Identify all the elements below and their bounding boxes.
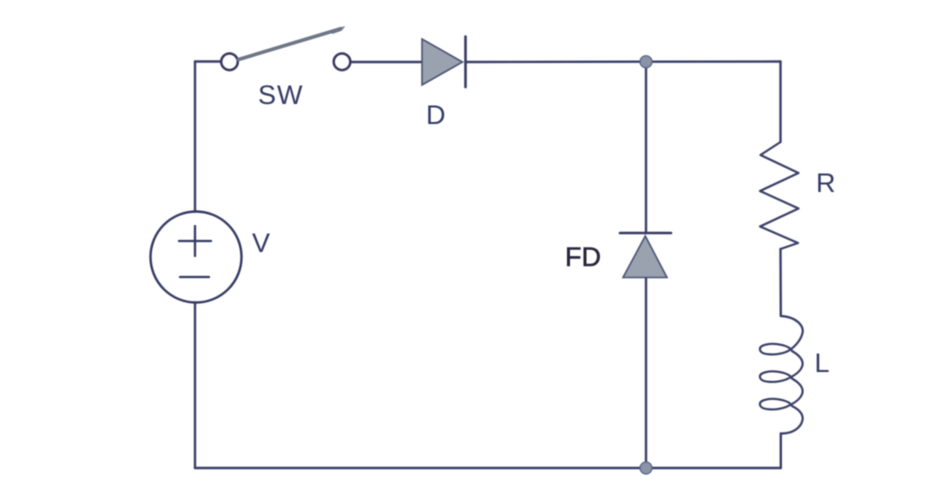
diode D triangle <box>422 39 463 85</box>
svg-text:R: R <box>816 168 836 198</box>
wire resistor to inductor <box>779 249 782 316</box>
svg-text:L: L <box>815 348 830 378</box>
wire FD branch bottom <box>645 277 647 468</box>
wire diode to node A <box>466 61 646 64</box>
node A junction dot top <box>640 56 652 68</box>
wire switch to diode <box>351 61 422 63</box>
wire node A to top-right corner <box>646 60 781 63</box>
node B junction dot bottom <box>640 462 652 474</box>
svg-text:V: V <box>252 228 270 258</box>
wire right rail to resistor <box>779 62 781 143</box>
diode D cathode bar <box>464 37 467 88</box>
wire inductor to bottom rail <box>780 434 782 469</box>
voltage source minus sign <box>180 276 209 278</box>
svg-text:FD: FD <box>565 242 601 272</box>
wire left rail top <box>194 62 196 212</box>
wire bottom rail <box>195 467 781 469</box>
resistor R zigzag <box>760 142 799 249</box>
switch SW lever <box>239 27 345 60</box>
switch SW left contact circle <box>221 54 238 71</box>
switch SW right contact circle <box>334 54 351 71</box>
wire top-left to switch <box>195 60 221 62</box>
wire left rail bottom <box>194 303 196 469</box>
svg-text:D: D <box>426 100 446 130</box>
svg-text:SW: SW <box>258 80 304 110</box>
voltage source plus sign <box>179 226 211 256</box>
freewheel diode FD triangle <box>623 236 667 278</box>
voltage source V circle <box>151 212 242 303</box>
inductor L coil <box>760 316 803 434</box>
freewheel diode FD cathode bar <box>620 232 671 235</box>
wire FD branch top <box>645 62 647 233</box>
